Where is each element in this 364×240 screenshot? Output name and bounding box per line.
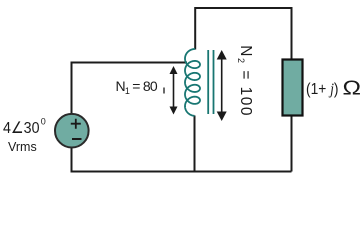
small tick next to N1 label	[163, 88, 165, 94]
wire: transformer top lead, top rail, right side down to load	[195, 8, 291, 59]
N2 double-headed arrow	[217, 50, 227, 121]
svg-text:N1 = 80: N1 = 80	[116, 78, 158, 96]
svg-text:N2 = 100: N2 = 100	[236, 45, 254, 117]
N1 double-headed arrow	[170, 66, 178, 115]
voltage source plus sign	[71, 119, 81, 129]
svg-text:Ω: Ω	[343, 77, 362, 99]
transformer core line 2	[213, 50, 215, 114]
wire: transformer bottom lead	[194, 116, 196, 171]
inductor coil (primary winding)	[185, 49, 200, 116]
svg-text:4∠30: 4∠30	[3, 120, 40, 137]
wire: bottom rail	[71, 171, 292, 173]
wire: below source down to bottom rail	[71, 148, 73, 171]
wire: top-left horizontal from source branch to coil	[72, 63, 188, 115]
voltage source V1 circle	[55, 114, 89, 148]
transformer core line 1	[207, 50, 209, 114]
voltage source minus sign	[72, 138, 82, 140]
svg-text:Vrms: Vrms	[8, 140, 37, 154]
wire: right side below load	[291, 116, 293, 172]
load impedance Z rectangle	[283, 60, 303, 116]
svg-text:0: 0	[41, 117, 46, 127]
svg-text:(1+ j): (1+ j)	[306, 81, 339, 98]
